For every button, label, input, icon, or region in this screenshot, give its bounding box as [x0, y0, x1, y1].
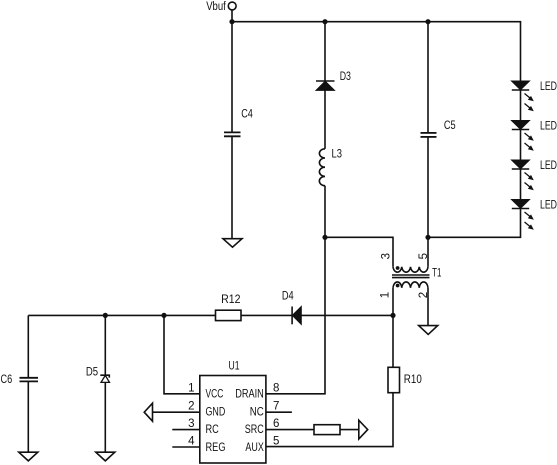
- diode D3: [316, 81, 335, 90]
- ground under T1 pin2: [419, 326, 438, 335]
- wire D3 top: [324, 22, 326, 81]
- wire L3 node to T1 pin3: [325, 237, 393, 266]
- wire D4 to T1 node: [301, 314, 393, 316]
- svg-text:6: 6: [273, 418, 279, 430]
- svg-text:5: 5: [418, 253, 430, 259]
- svg-text:R10: R10: [404, 374, 422, 386]
- wire D5 bottom: [104, 382, 106, 452]
- wire R10 top: [392, 315, 394, 367]
- svg-text:D3: D3: [340, 71, 351, 83]
- wire main rail left: [28, 314, 215, 316]
- transformer T1 secondary winding: [393, 282, 428, 288]
- svg-text:4: 4: [188, 436, 195, 448]
- wire LED4 bottom to C5 node: [428, 209, 521, 238]
- svg-text:Vbuf: Vbuf: [206, 1, 226, 13]
- wire C5 top: [427, 22, 429, 133]
- wire top rail: [232, 22, 521, 81]
- node T1 pin1 junction: [390, 313, 395, 318]
- node C5 top junction: [425, 19, 430, 24]
- capacitor C4: [224, 132, 241, 136]
- transformer T1 primary winding: [393, 267, 428, 272]
- zener diode D5: [100, 375, 109, 382]
- svg-text:SRC: SRC: [245, 424, 264, 436]
- wire D3 to L3: [324, 90, 326, 148]
- wire C4 bottom: [231, 136, 233, 238]
- svg-text:C5: C5: [444, 120, 456, 132]
- node Vbuf terminal: [228, 2, 236, 10]
- node drain junction: [322, 235, 327, 240]
- wire LED1-LED2: [520, 90, 522, 121]
- junction node dots: [103, 19, 431, 318]
- wire L3 bottom: [324, 186, 326, 238]
- svg-text:GND: GND: [206, 406, 226, 418]
- LED1 emission arrows: [525, 94, 534, 112]
- capacitor C5: [421, 133, 437, 137]
- wire R12 to D4: [241, 314, 292, 316]
- wire R10 bottom to AUX pin 5: [266, 393, 393, 447]
- svg-text:AUX: AUX: [245, 442, 264, 454]
- resistor (SRC series, unlabeled): [314, 425, 340, 435]
- wire T1 pin1 down: [392, 288, 394, 316]
- ground under D5: [96, 452, 115, 461]
- svg-text:1: 1: [188, 383, 194, 395]
- svg-text:8: 8: [273, 383, 279, 395]
- node D5 junction: [103, 313, 108, 318]
- LED D-LED4: [512, 200, 530, 209]
- capacitor C6: [20, 378, 39, 382]
- svg-text:5: 5: [273, 436, 279, 448]
- svg-text:LED: LED: [540, 121, 557, 133]
- wire C6 bottom: [27, 381, 29, 452]
- LED4 emission arrows: [525, 212, 534, 230]
- wire T1 pin2 down: [427, 288, 429, 326]
- wire GND pin 2: [153, 411, 200, 413]
- svg-text:DRAIN: DRAIN: [235, 389, 264, 401]
- node C5 bottom junction: [425, 235, 430, 240]
- node D3 top junction: [322, 19, 327, 24]
- svg-text:2: 2: [188, 400, 194, 412]
- svg-text:U1: U1: [229, 360, 240, 372]
- T1 primary phase dot: [396, 266, 400, 270]
- svg-text:7: 7: [273, 400, 279, 412]
- svg-text:T1: T1: [432, 268, 441, 280]
- IC U1 body: [200, 376, 266, 464]
- LED3 emission arrows: [525, 173, 534, 191]
- svg-text:REG: REG: [206, 442, 226, 454]
- wire RC stub pin 3: [172, 429, 200, 431]
- LED2 emission arrows: [525, 133, 534, 151]
- resistor R10: [388, 367, 400, 392]
- node VCC junction: [161, 313, 166, 318]
- svg-text:LED: LED: [540, 81, 557, 93]
- svg-text:VCC: VCC: [206, 389, 224, 401]
- arrow SRC (points right): [359, 420, 368, 439]
- diode D4: [292, 306, 301, 324]
- resistor R12: [216, 310, 242, 320]
- svg-text:LED: LED: [540, 160, 557, 172]
- svg-text:L3: L3: [332, 149, 343, 161]
- wire SRC pin 6: [266, 429, 314, 431]
- inductor L3: [319, 149, 325, 186]
- LED D-LED3: [512, 160, 530, 169]
- wire LED3-LED4: [520, 169, 522, 200]
- wire C5 bottom: [427, 137, 429, 237]
- ground under C4: [223, 239, 242, 248]
- node Vbuf junction: [229, 19, 234, 24]
- wire T1 pin5 up: [427, 237, 429, 266]
- wire Vbuf stem: [231, 10, 233, 22]
- wire C4 top: [231, 22, 233, 133]
- wire LED2-LED3: [520, 130, 522, 161]
- wire D5 branch: [104, 315, 106, 375]
- svg-text:D4: D4: [282, 291, 294, 303]
- svg-text:2: 2: [418, 292, 430, 298]
- LED D-LED1: [512, 81, 530, 90]
- svg-text:R12: R12: [221, 294, 240, 306]
- svg-text:D5: D5: [86, 366, 98, 378]
- svg-text:NC: NC: [250, 406, 264, 418]
- svg-text:C4: C4: [241, 109, 253, 121]
- wire C6 branch: [27, 315, 29, 377]
- LED D-LED2: [512, 121, 530, 130]
- wire resistor to arrow: [340, 429, 359, 431]
- svg-text:3: 3: [380, 253, 392, 259]
- wire VCC branch: [164, 315, 200, 393]
- ground under C6: [19, 452, 38, 461]
- wire DRAIN vertical: [266, 237, 325, 393]
- T1 secondary phase dot: [396, 284, 400, 288]
- svg-text:3: 3: [188, 418, 194, 430]
- svg-text:1: 1: [380, 292, 392, 298]
- wire REG stub pin 4: [172, 446, 200, 448]
- transformer T1 core: [392, 275, 430, 278]
- arrow GND (points left): [144, 403, 152, 421]
- svg-text:C6: C6: [1, 374, 13, 386]
- wire NC stub pin 7: [266, 411, 292, 413]
- svg-text:RC: RC: [206, 424, 219, 436]
- svg-text:LED: LED: [540, 200, 557, 212]
